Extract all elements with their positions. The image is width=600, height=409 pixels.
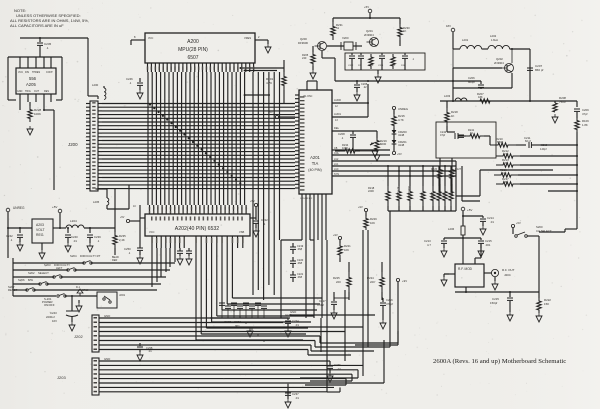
capacitor C237 xyxy=(285,384,299,400)
svg-text:+5V: +5V xyxy=(364,5,369,9)
svg-text:470pf: 470pf xyxy=(386,302,393,306)
svg-text:2N3904: 2N3904 xyxy=(494,61,504,65)
wire TIA bottom pin stubs xyxy=(300,194,326,205)
wire bottom verticals xyxy=(321,211,390,376)
wire MPU VRES stub xyxy=(244,35,268,40)
wire rfmod top xyxy=(462,215,483,217)
resistor R228 xyxy=(28,102,42,122)
capacitor C216 xyxy=(380,298,393,320)
ground osc box xyxy=(375,70,381,83)
label J202 pins xyxy=(94,317,98,350)
ground J204 xyxy=(492,277,498,290)
svg-text:.01: .01 xyxy=(295,323,299,327)
resistor R232 xyxy=(390,54,396,69)
svg-text:R203: R203 xyxy=(368,65,374,67)
svg-text:4148: 4148 xyxy=(398,133,405,137)
node UNREG xyxy=(6,206,32,258)
svg-text:.01: .01 xyxy=(490,220,494,224)
svg-text:.01: .01 xyxy=(148,349,152,353)
node +9V paddle xyxy=(355,278,407,345)
wire rfmod pins xyxy=(444,244,492,274)
svg-text:+9V: +9V xyxy=(333,233,338,237)
node +5V pot xyxy=(392,148,402,156)
wire 556 out down xyxy=(20,102,54,190)
svg-text:R.F. MOD: R.F. MOD xyxy=(458,267,473,271)
wire J200 bottom xyxy=(93,185,129,209)
wire MPU right bends xyxy=(239,67,284,96)
svg-text:L202: L202 xyxy=(490,34,497,38)
node +5V chsel xyxy=(511,221,521,234)
capacitor C219 xyxy=(290,243,304,254)
capacitor C250 xyxy=(124,246,143,255)
svg-text:240: 240 xyxy=(302,56,307,60)
svg-text:C202: C202 xyxy=(348,65,354,67)
node +5V RIOT right xyxy=(250,199,258,218)
connector J202 box xyxy=(74,315,99,352)
svg-text:R217 4.7K: R217 4.7K xyxy=(397,186,400,198)
wire RIOT bottom pin stubs xyxy=(152,236,243,248)
connector J201 box xyxy=(80,292,126,308)
node bus junctions xyxy=(149,103,242,184)
svg-text:THRES: THRES xyxy=(32,71,41,74)
wire S204 line xyxy=(13,262,175,264)
svg-text:A201: A201 xyxy=(310,155,320,160)
wire vert 453 xyxy=(452,68,454,101)
svg-text:TIA: TIA xyxy=(312,161,319,166)
label TIA left pin names xyxy=(300,96,305,190)
svg-text:6507: 6507 xyxy=(187,55,198,61)
capacitor C223-C230 row xyxy=(210,298,290,342)
wire RIOT left xyxy=(120,205,145,246)
svg-text:16V: 16V xyxy=(52,319,57,323)
wire RIOT top pin stubs xyxy=(150,205,247,214)
capacitor C206 xyxy=(468,76,484,89)
svg-text:J203: J203 xyxy=(57,375,66,380)
svg-text:82 pf: 82 pf xyxy=(525,139,531,143)
svg-text:.068: .068 xyxy=(297,247,303,251)
svg-text:R232: R232 xyxy=(390,65,396,67)
wire J203 lines xyxy=(99,318,384,392)
transistor Q202 xyxy=(494,57,514,73)
label ladder xyxy=(368,186,446,198)
svg-text:6800: 6800 xyxy=(497,140,504,144)
capacitor C231 xyxy=(177,248,183,265)
svg-text:J201: J201 xyxy=(119,293,126,297)
svg-text:DEL: DEL xyxy=(334,126,340,130)
svg-text:860pf: 860pf xyxy=(468,80,475,84)
svg-text:27K: 27K xyxy=(504,152,509,156)
svg-text:L205: L205 xyxy=(93,200,100,204)
transistor Q200 xyxy=(298,37,327,51)
diode CR200 xyxy=(392,128,408,137)
resistor R227 xyxy=(450,158,462,195)
svg-text:2.4K: 2.4K xyxy=(119,238,125,242)
ground C246 xyxy=(137,90,143,99)
svg-text:.01: .01 xyxy=(73,239,77,243)
resistor R224 xyxy=(367,262,384,300)
svg-text:VRES: VRES xyxy=(244,36,251,40)
resistor ladder R218-R221 xyxy=(386,166,456,211)
wire chsel xyxy=(527,229,565,292)
svg-text:A203: A203 xyxy=(36,223,44,227)
wire rfmod mid xyxy=(444,237,481,239)
svg-text:15K: 15K xyxy=(544,302,549,306)
node +5V osc xyxy=(364,5,372,18)
wire chip select lines xyxy=(253,72,280,300)
svg-text:+5V: +5V xyxy=(516,221,521,225)
node +5V tap xyxy=(268,110,295,119)
wire 556 bottom pins xyxy=(20,94,51,102)
wire RIOT data staircase xyxy=(196,248,322,340)
label title xyxy=(433,358,566,365)
svg-text:220: 220 xyxy=(370,280,375,284)
wire pot link xyxy=(335,142,353,151)
capacitor C208 xyxy=(338,131,356,142)
wire 556 top rail xyxy=(20,37,88,39)
ground C244 xyxy=(17,242,23,251)
svg-text:.068: .068 xyxy=(297,275,303,279)
svg-text:4.7: 4.7 xyxy=(427,243,431,247)
svg-text:AUD0: AUD0 xyxy=(334,98,341,102)
ground J201 xyxy=(76,300,82,312)
svg-text:4.7K: 4.7K xyxy=(266,81,272,85)
wire Q202 collector xyxy=(511,48,513,63)
label MPU pin numbers xyxy=(147,67,254,70)
ground C214 xyxy=(480,226,486,235)
capacitor C244 xyxy=(6,227,23,242)
svg-text:SYN: SYN xyxy=(334,173,339,176)
svg-text:4148: 4148 xyxy=(398,143,405,147)
svg-text:+5V: +5V xyxy=(397,152,402,156)
svg-text:(40 PIN): (40 PIN) xyxy=(308,168,321,172)
switch S204 xyxy=(70,254,101,264)
svg-text:R221: R221 xyxy=(421,192,424,198)
svg-text:VCC: VCC xyxy=(149,230,155,234)
capacitor C240 xyxy=(65,228,78,243)
svg-text:VSB: VSB xyxy=(239,230,244,234)
wire MPU VCC stub xyxy=(131,35,153,40)
wire reg out rail xyxy=(53,227,115,229)
svg-text:18K: 18K xyxy=(478,95,483,99)
resistor R217 xyxy=(496,177,578,186)
diode CR201 xyxy=(392,134,408,147)
svg-text:.001: .001 xyxy=(485,243,491,247)
svg-text:1.8uH: 1.8uH xyxy=(491,38,498,42)
resistor R241 xyxy=(466,128,490,145)
svg-text:10K: 10K xyxy=(502,171,507,175)
inductor L206 xyxy=(448,224,465,264)
node +5V RF xyxy=(446,24,455,49)
svg-text:+9V: +9V xyxy=(358,205,363,209)
ground C215 xyxy=(507,312,513,321)
switch S207 reset xyxy=(8,285,35,292)
wire S206 line xyxy=(13,283,161,285)
svg-text:L204: L204 xyxy=(70,219,77,223)
ground C205 xyxy=(354,92,360,101)
svg-text:S204: S204 xyxy=(70,254,77,258)
svg-text:S202: S202 xyxy=(28,271,35,275)
svg-text:ON/OFF: ON/OFF xyxy=(44,303,55,307)
svg-text:L200: L200 xyxy=(92,83,99,87)
svg-text:10K: 10K xyxy=(344,248,349,252)
resistor R218b xyxy=(445,101,458,126)
resistor R212 xyxy=(496,149,578,158)
svg-text:+5V: +5V xyxy=(52,205,57,209)
wire RF rail xyxy=(453,48,530,50)
transistor Q201 xyxy=(364,29,379,47)
resistor R210 xyxy=(490,137,516,147)
wire S203 line xyxy=(13,269,170,271)
ground C239 xyxy=(87,243,93,252)
svg-text:DIFFICULTY RT: DIFFICULTY RT xyxy=(80,254,101,258)
note text xyxy=(10,8,89,28)
svg-text:X200: X200 xyxy=(342,36,349,40)
label J203 pins xyxy=(94,360,98,392)
ground MPU right xyxy=(265,40,271,53)
wire video line xyxy=(335,80,481,82)
svg-text:LU1: LU1 xyxy=(334,163,339,166)
resistor R216 xyxy=(494,168,578,177)
ground R219 xyxy=(374,152,380,161)
svg-text:1K: 1K xyxy=(403,29,407,33)
label GND paddle xyxy=(285,313,293,317)
resistor R209 xyxy=(575,118,589,132)
wire TIA AUD1 line xyxy=(332,112,368,122)
inductor L203 xyxy=(444,94,467,101)
wire J200 pin stubs xyxy=(86,104,102,189)
capacitor C239 xyxy=(87,228,101,243)
svg-text:556: 556 xyxy=(29,76,37,81)
IC A200 MPU 6507 box xyxy=(145,33,255,63)
svg-text:+9V: +9V xyxy=(402,279,407,283)
svg-text:18V: 18V xyxy=(446,24,451,28)
svg-text:2600A (Revs. 16 and up) Mother: 2600A (Revs. 16 and up) Motherboard Sche… xyxy=(433,358,566,365)
node +9V top xyxy=(358,205,368,216)
wire MPU pin stubs xyxy=(148,63,254,72)
ground C215a xyxy=(478,248,484,257)
wire Q202 base xyxy=(453,49,502,68)
svg-text:COL: COL xyxy=(334,152,340,155)
svg-text:CB: CB xyxy=(334,147,338,150)
resistor R201 xyxy=(266,60,286,103)
op-amp U-A205 556 timer box xyxy=(16,68,56,94)
svg-text:GND: GND xyxy=(104,314,110,318)
svg-text:REG.: REG. xyxy=(36,233,44,237)
svg-text:5000: 5000 xyxy=(380,142,387,146)
wire S202 line xyxy=(13,276,166,278)
ground C234 xyxy=(285,328,291,337)
svg-text:1K: 1K xyxy=(470,131,473,135)
svg-text:4.7K: 4.7K xyxy=(398,118,404,122)
wire osc out xyxy=(322,51,335,81)
svg-text:18K: 18K xyxy=(503,180,508,184)
svg-text:6.8K: 6.8K xyxy=(503,161,509,165)
ground caps row xyxy=(247,328,253,337)
capacitor C222 xyxy=(253,218,268,228)
capacitor C215a xyxy=(478,238,492,248)
node UNREG right xyxy=(392,106,408,114)
ground C216 xyxy=(380,320,386,329)
wire TIA top pins xyxy=(307,81,317,90)
svg-text:OUT: OUT xyxy=(34,90,40,93)
capacitor C205 xyxy=(354,81,368,92)
wire to J200 top xyxy=(87,38,89,96)
svg-text:LU0: LU0 xyxy=(334,168,339,171)
resistor R231 xyxy=(331,22,343,40)
svg-text:RES: RES xyxy=(44,90,49,93)
svg-text:51: 51 xyxy=(336,26,340,30)
svg-text:1615141312: 1615141312 xyxy=(300,198,313,200)
wire RF right vert xyxy=(529,49,531,101)
wire S207 line xyxy=(13,289,157,291)
svg-text:CONT: CONT xyxy=(46,71,53,74)
resistor R229 xyxy=(364,216,377,230)
svg-text:DER: DER xyxy=(112,259,117,262)
IC RF modulator box xyxy=(455,264,484,287)
ground C250 xyxy=(137,255,143,264)
svg-text:.1: .1 xyxy=(46,46,49,50)
capacitor C234 xyxy=(285,318,299,328)
capacitor C214 xyxy=(480,216,494,226)
wire audio join xyxy=(367,84,369,117)
svg-text:220: 220 xyxy=(336,280,341,284)
capacitor C204 xyxy=(358,53,364,70)
svg-text:R.F. OUT: R.F. OUT xyxy=(502,268,515,272)
capacitor C220 xyxy=(290,257,304,268)
capacitor C243 xyxy=(46,295,78,323)
ground C238 xyxy=(137,352,143,361)
capacitor C203 xyxy=(401,53,415,70)
svg-text:1K: 1K xyxy=(451,114,455,118)
node ladder taps xyxy=(387,165,452,177)
svg-text:47pf: 47pf xyxy=(582,112,588,116)
ground R205 xyxy=(310,70,316,79)
wire RIOT switch drops xyxy=(152,248,175,287)
inductor L202 xyxy=(488,34,510,49)
wire TIA video bus right xyxy=(332,147,456,176)
svg-text:+5V: +5V xyxy=(268,110,273,114)
svg-text:A200: A200 xyxy=(187,39,199,45)
capacitor C209 xyxy=(574,108,589,118)
wire TIA osc taps xyxy=(307,80,317,82)
resistor R221b xyxy=(338,243,351,262)
wire osc top rail xyxy=(333,17,400,24)
svg-text:47pf: 47pf xyxy=(440,133,445,137)
wire rfmod bottom xyxy=(455,287,539,293)
wire horizontal bus J200 to TIA xyxy=(102,104,295,189)
svg-text:J200: J200 xyxy=(68,142,78,147)
svg-text:C201: C201 xyxy=(378,65,384,67)
wire right edge xyxy=(553,101,577,107)
wire right edge down xyxy=(540,132,577,229)
svg-text:TRIG: TRIG xyxy=(25,90,31,93)
capacitor C207 xyxy=(527,64,544,72)
resistor R208 xyxy=(553,96,567,112)
ground C240 xyxy=(65,243,71,252)
capacitor C236 xyxy=(327,361,341,373)
svg-text:VOLT: VOLT xyxy=(36,228,45,232)
svg-text:ALL CAPACITORS ARE IN uF: ALL CAPACITORS ARE IN uF xyxy=(10,23,64,28)
resistor R215 xyxy=(392,114,405,128)
ground C222 xyxy=(253,228,259,237)
wire TIA left pin stubs xyxy=(295,95,299,188)
capacitor C217 xyxy=(317,292,349,310)
capacitor C201 xyxy=(378,53,385,70)
wire comp box xyxy=(436,122,496,158)
svg-text:100K: 100K xyxy=(34,112,41,116)
svg-text:DIS: DIS xyxy=(25,71,29,74)
svg-text:140pf: 140pf xyxy=(540,147,547,151)
wire J202 lines xyxy=(99,314,398,355)
wire right video bus xyxy=(456,161,462,211)
svg-text:A12A: A12A xyxy=(443,192,446,198)
svg-text:MPU(28 PIN): MPU(28 PIN) xyxy=(178,47,208,53)
wire paddle lines xyxy=(302,205,326,318)
svg-text:B/W: B/W xyxy=(28,278,33,282)
ground rfmod left xyxy=(441,274,449,286)
ground C237 xyxy=(285,399,291,408)
svg-text:UNREG: UNREG xyxy=(398,107,408,111)
svg-text:J202: J202 xyxy=(74,334,83,339)
wire gnd row right xyxy=(290,310,375,315)
label RIOT top pin names xyxy=(151,217,243,221)
wire switch left rail xyxy=(13,258,56,296)
inductor L201 xyxy=(460,38,482,49)
svg-text:100K: 100K xyxy=(342,146,348,150)
svg-text:R220 5600: R220 5600 xyxy=(408,186,411,198)
svg-text:2200: 2200 xyxy=(368,189,374,193)
switch S202 xyxy=(28,271,62,278)
IC A203 voltage regulator box xyxy=(32,219,53,243)
capacitor C242 xyxy=(440,126,466,139)
resistor R207 xyxy=(473,92,497,103)
connector J203 box xyxy=(57,358,99,395)
wire TIA AUD0 line xyxy=(332,98,368,108)
diode CR102 xyxy=(65,286,89,296)
svg-text:.01: .01 xyxy=(295,396,299,400)
svg-text:L206: L206 xyxy=(448,227,455,231)
svg-text:AUD1: AUD1 xyxy=(334,112,341,116)
wire vertical bus MPU to RIOT xyxy=(148,72,245,205)
svg-text:L201: L201 xyxy=(462,38,469,42)
wire RF bottom rail xyxy=(440,100,553,102)
svg-text:+5V: +5V xyxy=(120,216,125,219)
svg-text:+5V: +5V xyxy=(250,199,255,203)
switch S200 channel select xyxy=(515,225,552,237)
resistor R235 xyxy=(112,188,126,262)
svg-text:150pf: 150pf xyxy=(490,301,497,305)
switch S206 xyxy=(18,278,48,285)
switch S203 xyxy=(44,263,76,271)
wire paddle cap frame xyxy=(281,240,327,318)
svg-text:.22: .22 xyxy=(363,85,367,89)
node VCC left xyxy=(130,40,132,45)
capacitor C215 150pf xyxy=(490,292,513,312)
wire Q202 emitter xyxy=(453,73,512,88)
svg-text:GND: GND xyxy=(290,310,296,314)
svg-text:.068: .068 xyxy=(297,261,303,265)
ground 556 xyxy=(27,126,33,135)
resistor R225 xyxy=(333,262,351,300)
svg-text:R510: R510 xyxy=(431,192,434,198)
svg-text:SELECT: SELECT xyxy=(38,271,49,275)
node +5V reg xyxy=(52,205,62,228)
svg-text:.01: .01 xyxy=(337,367,341,371)
resistor R219 pot xyxy=(370,138,387,152)
svg-text:1.8K: 1.8K xyxy=(582,123,588,127)
capacitor C211 xyxy=(516,136,540,148)
capacitor C213 xyxy=(424,238,447,248)
